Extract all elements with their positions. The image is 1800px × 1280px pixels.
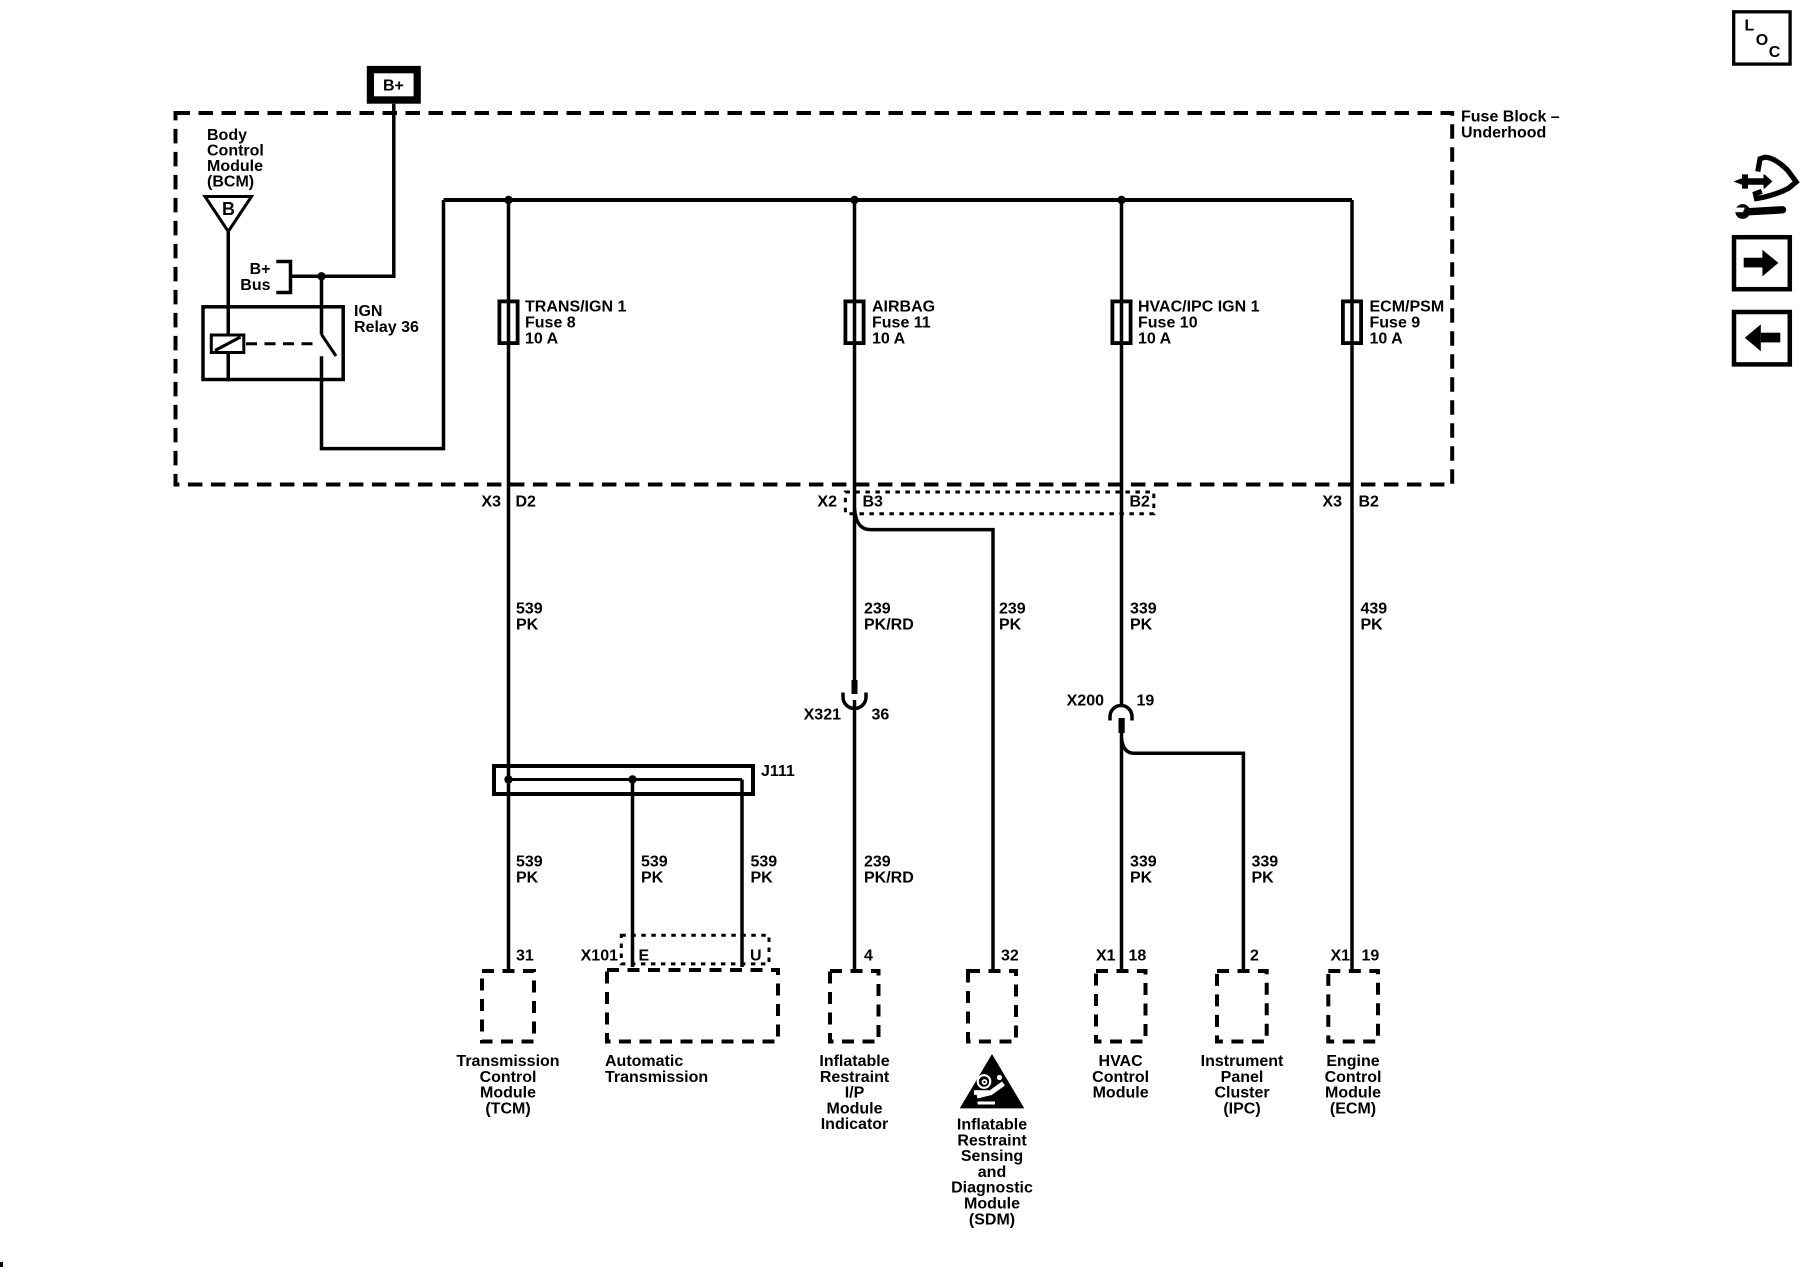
wire: relay output down, right and up to ignition bus (322, 200, 444, 449)
Fuse Block - Underhood dashed enclosure (176, 113, 1453, 485)
wire: J111 to automatic transmission pin E (631, 780, 635, 968)
pin label X3 D2 at fuse block connector (481, 494, 536, 511)
splice pack J111 box (494, 766, 753, 794)
svg-text:Module: Module (964, 1196, 1020, 1213)
svg-text:Control: Control (207, 143, 264, 160)
label: HVAC Control Module (1092, 1053, 1149, 1102)
svg-text:539: 539 (751, 854, 778, 871)
label: TRANS/IGN 1 Fuse 8 10 A (525, 299, 626, 348)
pin label X3 B2 at fuse 9 (1322, 494, 1379, 511)
svg-text:HVAC: HVAC (1099, 1053, 1144, 1070)
Engine Control Module dashed box (1328, 971, 1378, 1042)
svg-text:B+: B+ (250, 261, 271, 278)
junction node J111 middle (628, 775, 636, 783)
in-line connector X200 pin 19 (1110, 706, 1132, 733)
svg-text:Sensing: Sensing (961, 1148, 1023, 1165)
svg-text:PK: PK (516, 617, 539, 634)
wire: fuse 10 circuit 339 PK upper segment (1120, 200, 1124, 705)
label: wire 439 PK (1361, 601, 1388, 634)
junction node J111 left (504, 775, 512, 783)
svg-text:Module: Module (1325, 1085, 1381, 1102)
label: wire 339 PK lower left (1130, 854, 1157, 887)
svg-text:E: E (639, 948, 650, 965)
label: wire 339 PK upper (1130, 601, 1157, 634)
svg-text:Control: Control (1325, 1069, 1382, 1086)
svg-text:439: 439 (1361, 601, 1388, 618)
svg-text:B2: B2 (1359, 494, 1380, 511)
svg-text:U: U (750, 948, 762, 965)
svg-text:239: 239 (864, 854, 891, 871)
svg-text:2: 2 (1250, 948, 1259, 965)
svg-text:Control: Control (480, 1069, 537, 1086)
label: wire 339 PK lower right (1252, 854, 1279, 887)
svg-text:X3: X3 (1322, 494, 1342, 511)
svg-text:L: L (1745, 18, 1755, 35)
svg-text:Fuse 11: Fuse 11 (872, 315, 931, 332)
svg-text:10 A: 10 A (872, 331, 906, 348)
svg-text:Automatic: Automatic (605, 1053, 683, 1070)
svg-text:PK: PK (999, 617, 1022, 634)
svg-text:IGN: IGN (354, 303, 382, 320)
svg-text:239: 239 (864, 601, 891, 618)
right arrow box (navigation) (1734, 237, 1790, 289)
svg-text:and: and (978, 1164, 1006, 1181)
stray mark at left edge (0, 1262, 3, 1267)
wire: fuse 9 circuit 439 PK down to ECM (1350, 200, 1354, 969)
svg-text:X200: X200 (1067, 693, 1104, 710)
svg-text:Transmission: Transmission (605, 1069, 708, 1086)
left arrow box (navigation) (1734, 312, 1790, 364)
svg-text:HVAC/IPC IGN 1: HVAC/IPC IGN 1 (1138, 299, 1260, 316)
Inflatable Restraint I/P Module Indicator dashed box (830, 971, 879, 1042)
in-line connector X321 pin 36 (843, 680, 866, 709)
svg-text:PK: PK (1130, 870, 1153, 887)
svg-text:AIRBAG: AIRBAG (872, 299, 935, 316)
label: wire 539 PK upper (516, 601, 543, 634)
svg-text:PK: PK (751, 870, 774, 887)
label: Body Control Module (BCM) (207, 127, 264, 191)
svg-text:Panel: Panel (1221, 1069, 1264, 1086)
label: wire 239 PK upper (branch) (999, 601, 1026, 634)
svg-text:B2: B2 (1130, 494, 1151, 511)
label: AIRBAG Fuse 11 10 A (872, 299, 935, 348)
wire: ignition voltage bus horizontal (444, 198, 1353, 202)
svg-text:ECM/PSM: ECM/PSM (1370, 299, 1445, 316)
HVAC Control Module dashed box (1096, 971, 1146, 1042)
svg-text:Module: Module (1093, 1085, 1149, 1102)
svg-text:(TCM): (TCM) (485, 1100, 530, 1117)
label: wire 539 PK lower middle (641, 854, 668, 887)
svg-text:X1: X1 (1331, 948, 1351, 965)
wire: B+ box down to B+ bus bracket (291, 104, 394, 277)
B+ battery feed box (367, 66, 421, 104)
svg-text:(BCM): (BCM) (207, 174, 254, 191)
svg-text:Diagnostic: Diagnostic (951, 1180, 1033, 1197)
Transmission Control Module (TCM) dashed box (482, 971, 534, 1042)
label: Fuse Block - Underhood (1461, 109, 1560, 142)
wire: junction down to relay switch (320, 276, 324, 334)
svg-text:4: 4 (864, 948, 873, 965)
svg-text:B+: B+ (383, 78, 404, 95)
svg-text:Bus: Bus (240, 277, 270, 294)
svg-text:Restraint: Restraint (820, 1069, 890, 1086)
wire: branch to instrument panel cluster (1122, 738, 1244, 969)
junction node on bus at fuse 11 (850, 196, 858, 204)
svg-text:(SDM): (SDM) (969, 1211, 1015, 1228)
svg-text:339: 339 (1252, 854, 1279, 871)
svg-text:10 A: 10 A (1370, 331, 1404, 348)
svg-text:339: 339 (1130, 854, 1157, 871)
connector X101 dashed box (621, 935, 769, 964)
svg-text:X2: X2 (817, 494, 837, 511)
relay U1 IGN Relay 36 box (203, 307, 343, 380)
svg-text:Transmission: Transmission (456, 1053, 559, 1070)
svg-text:TRANS/IGN 1: TRANS/IGN 1 (525, 299, 626, 316)
label: wire 539 PK lower left (516, 854, 543, 887)
LOC reference box (top right) (1734, 12, 1790, 64)
svg-text:10 A: 10 A (525, 331, 559, 348)
label: Automatic Transmission (605, 1053, 708, 1086)
label: wire 239 PK/RD upper (864, 601, 914, 634)
svg-text:539: 539 (641, 854, 668, 871)
junction node on bus at fuse 10 (1117, 196, 1125, 204)
junction node on bus at fuse 8 (504, 196, 512, 204)
svg-text:Control: Control (1092, 1069, 1149, 1086)
svg-text:PK: PK (1252, 870, 1275, 887)
SDM airbag warning triangle (960, 1054, 1025, 1108)
svg-text:Cluster: Cluster (1214, 1085, 1269, 1102)
svg-text:C: C (1769, 44, 1781, 61)
svg-text:(IPC): (IPC) (1223, 1100, 1260, 1117)
svg-text:Inflatable: Inflatable (819, 1053, 889, 1070)
label: Inflatable Restraint I/P Module Indicator (819, 1053, 889, 1133)
Automatic Transmission dashed box (607, 970, 778, 1042)
svg-text:19: 19 (1362, 948, 1380, 965)
pin label X1 19 at ECM (1331, 948, 1380, 965)
wire: X321 down to I/P module indicator pin 4 (853, 700, 857, 969)
label: Instrument Panel Cluster (IPC) (1201, 1053, 1284, 1117)
svg-text:O: O (1756, 32, 1768, 49)
BCM triangle terminal B (205, 197, 252, 232)
fuse F9 ECM/PSM symbol (1343, 301, 1361, 343)
relay coil (211, 335, 244, 353)
label: HVAC/IPC IGN 1 Fuse 10 10 A (1138, 299, 1260, 348)
svg-text:PK/RD: PK/RD (864, 617, 914, 634)
label: Engine Control Module (ECM) (1325, 1053, 1382, 1117)
label: wire 239 PK/RD lower (864, 854, 914, 887)
svg-text:32: 32 (1001, 948, 1019, 965)
wire: fuse 11 circuit 239 PK/RD upper segment (853, 200, 857, 680)
svg-text:Fuse 10: Fuse 10 (1138, 315, 1198, 332)
svg-text:Inflatable: Inflatable (957, 1117, 1027, 1134)
wire: branch from B3 to SDM pin 32 (855, 508, 994, 969)
label: wire 539 PK lower right (751, 854, 778, 887)
svg-text:19: 19 (1137, 693, 1155, 710)
svg-text:339: 339 (1130, 601, 1157, 618)
svg-text:18: 18 (1129, 948, 1147, 965)
svg-text:J111: J111 (761, 763, 795, 780)
svg-text:10 A: 10 A (1138, 331, 1172, 348)
SDM dashed box (968, 971, 1016, 1042)
wire: coil to relay box bottom (227, 353, 231, 382)
svg-text:I/P: I/P (845, 1085, 865, 1102)
svg-text:31: 31 (516, 948, 534, 965)
svg-text:X321: X321 (804, 707, 841, 724)
svg-text:D2: D2 (516, 494, 537, 511)
B+ Bus bracket terminal (276, 262, 290, 293)
wire: BCM triangle to relay coil (227, 232, 231, 336)
fuse F8 TRANS/IGN 1 symbol (499, 301, 517, 343)
label: Transmission Control Module (TCM) (456, 1053, 559, 1117)
label: IGN Relay 36 (354, 303, 419, 336)
svg-text:PK: PK (1361, 617, 1384, 634)
junction node at B+ bus (317, 272, 325, 280)
svg-text:Module: Module (480, 1085, 536, 1102)
svg-text:Module: Module (827, 1100, 883, 1117)
svg-text:X3: X3 (481, 494, 501, 511)
svg-text:X1: X1 (1096, 948, 1116, 965)
wire: X200 down to HVAC control module (1120, 733, 1124, 970)
svg-text:Fuse 8: Fuse 8 (525, 315, 576, 332)
svg-text:36: 36 (872, 707, 890, 724)
label: ECM/PSM Fuse 9 10 A (1370, 299, 1445, 348)
svg-text:Restraint: Restraint (957, 1132, 1027, 1149)
svg-text:PK/RD: PK/RD (864, 870, 914, 887)
svg-text:Fuse 9: Fuse 9 (1370, 315, 1421, 332)
relay actuator dashed link (246, 342, 317, 345)
pin label X1 18 at HVAC (1096, 948, 1146, 965)
svg-text:539: 539 (516, 854, 543, 871)
pin label X2 B3 (817, 494, 883, 511)
wire: J111 to automatic transmission pin U (740, 780, 744, 968)
svg-text:Module: Module (207, 158, 263, 175)
svg-text:B3: B3 (863, 494, 884, 511)
Instrument Panel Cluster dashed box (1217, 971, 1267, 1042)
wire: fuse 8 circuit 539 PK down to TCM (507, 200, 511, 969)
svg-text:B: B (222, 199, 235, 219)
svg-text:(ECM): (ECM) (1330, 1100, 1376, 1117)
fuse F11 AIRBAG symbol (845, 301, 863, 343)
B+ Bus label (240, 261, 270, 294)
svg-text:Relay 36: Relay 36 (354, 319, 419, 336)
svg-text:Indicator: Indicator (821, 1116, 889, 1133)
svg-text:239: 239 (999, 601, 1026, 618)
fuse F10 HVAC/IPC IGN 1 symbol (1112, 301, 1130, 343)
svg-text:X101: X101 (581, 948, 618, 965)
navigation icon: double arrow with pointer outline and wrench (1733, 157, 1796, 219)
svg-text:Body: Body (207, 127, 247, 144)
svg-text:PK: PK (1130, 617, 1153, 634)
connector pass-through dashed box X2 to B2 (845, 492, 1153, 514)
svg-text:Fuse Block –: Fuse Block – (1461, 109, 1560, 126)
svg-text:PK: PK (516, 870, 539, 887)
relay switch blade (322, 335, 337, 357)
svg-text:Underhood: Underhood (1461, 125, 1546, 142)
label: Inflatable Restraint Sensing and Diagnostic Module (SDM) (951, 1117, 1033, 1229)
svg-text:Engine: Engine (1326, 1053, 1379, 1070)
svg-text:Instrument: Instrument (1201, 1053, 1284, 1070)
svg-text:PK: PK (641, 870, 664, 887)
svg-text:539: 539 (516, 601, 543, 618)
